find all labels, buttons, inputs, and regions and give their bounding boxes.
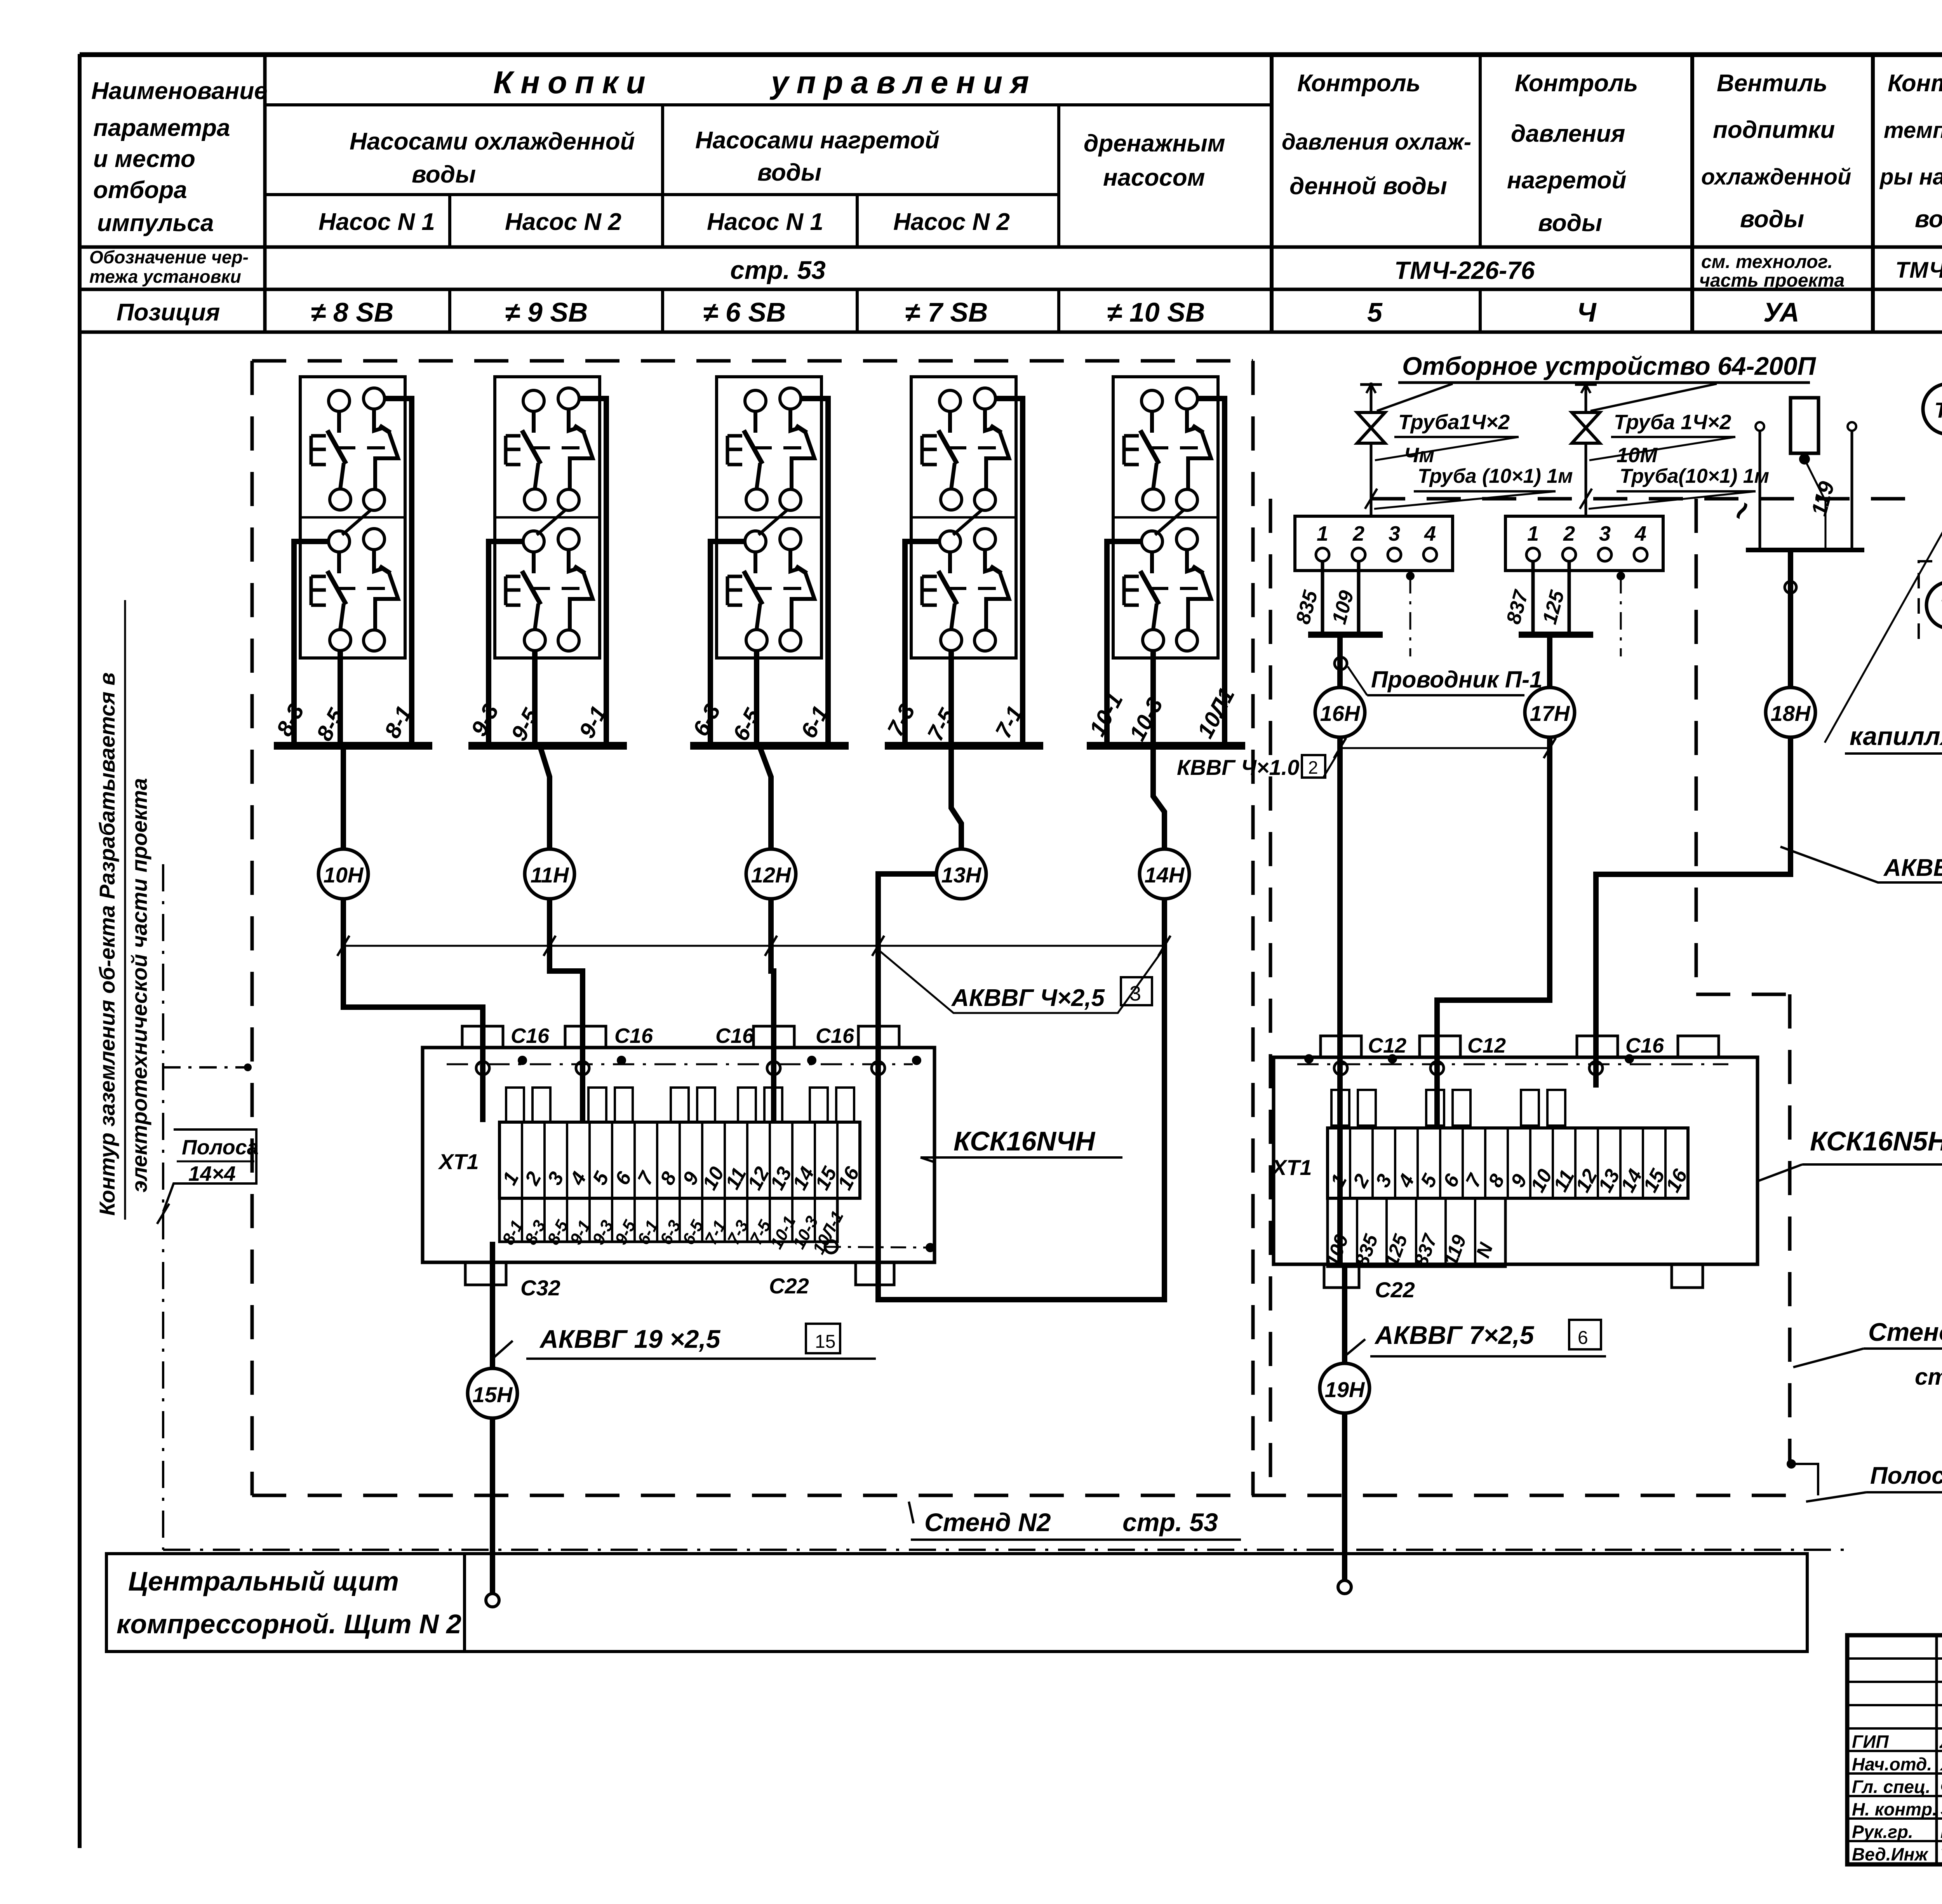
svg-text:17Н: 17Н: [1530, 701, 1570, 726]
wire 12Н down to cabinet: [771, 899, 774, 1122]
wire 17Н to cabinet: [1437, 737, 1550, 1128]
svg-text:и место: и место: [93, 146, 195, 172]
svg-text:4: 4: [1634, 522, 1646, 545]
svg-text:С16: С16: [614, 1024, 653, 1048]
svg-text:11Н: 11Н: [531, 863, 569, 887]
earthing dot: [1625, 1054, 1634, 1063]
svg-text:Труба (10×1) 1м: Труба (10×1) 1м: [1418, 465, 1573, 487]
svg-text:С16: С16: [511, 1024, 550, 1048]
svg-text:Контроль: Контроль: [1888, 70, 1942, 97]
wire right branch: [579, 399, 606, 746]
earthing terminal circle: [872, 1062, 885, 1075]
capillary inside: [1807, 464, 1825, 550]
drawing frame: [78, 54, 82, 1848]
earthing terminal circle: [1334, 1062, 1347, 1075]
earthing dot: [1388, 1054, 1397, 1063]
wire 18Н to cabinet: [1596, 737, 1791, 1088]
svg-text:стр. 53: стр. 53: [730, 256, 826, 284]
wire center branch: [754, 651, 759, 746]
circle 11Н: [525, 849, 574, 899]
svg-text:Насос N 1: Насос N 1: [707, 209, 823, 235]
svg-text:2: 2: [1563, 522, 1575, 545]
svg-text:стр. 53: стр. 53: [1122, 1508, 1218, 1537]
wire left branch: [905, 541, 940, 746]
svg-text:С16: С16: [715, 1024, 754, 1048]
svg-text:18Н: 18Н: [1771, 701, 1811, 726]
svg-text:воды: воды: [1915, 206, 1942, 233]
wire 119 down: [1788, 550, 1793, 687]
earthing dot: [518, 1056, 527, 1065]
earthing dot: [807, 1056, 816, 1065]
svg-text:14Н: 14Н: [1145, 863, 1185, 887]
svg-text:≠ 10 SB: ≠ 10 SB: [1107, 297, 1205, 327]
svg-text:ТI: ТI: [1940, 594, 1942, 618]
cable label АКВВГ 4х2.5 [3] right: [1780, 847, 1942, 882]
svg-text:капилляр: капилляр: [1850, 722, 1942, 750]
circle 19Н: [1320, 1363, 1369, 1413]
wires to bar: [1321, 561, 1324, 635]
svg-text:Вентиль: Вентиль: [1717, 70, 1827, 97]
svg-text:Вед.Инж: Вед.Инж: [1852, 1844, 1928, 1864]
screen dot and drain: [1617, 572, 1625, 580]
svg-text:Фукс: Фукс: [1940, 1777, 1942, 1797]
svg-text:КСК16N5Н: КСК16N5Н: [1810, 1126, 1942, 1156]
table: parameter header table: [80, 52, 1942, 56]
svg-text:Контур заземления об-екта Разр: Контур заземления об-екта Разрабатываетс…: [95, 672, 119, 1216]
svg-text:АКВВГ Ч×2.5: АКВВГ Ч×2.5: [1883, 855, 1942, 881]
svg-text:Наименование: Наименование: [91, 78, 268, 104]
svg-text:2: 2: [1308, 757, 1318, 778]
pushbutton station 6-5 block: [717, 377, 821, 658]
svg-text:АКВВГ 7×2,5: АКВВГ 7×2,5: [1374, 1321, 1535, 1349]
svg-text:параметра: параметра: [93, 115, 230, 141]
svg-text:1: 1: [1527, 522, 1539, 545]
crossover wire: [342, 510, 371, 535]
crossing tick: [872, 936, 884, 956]
gland С16 no.4: [858, 1026, 899, 1048]
svg-text:15: 15: [815, 1331, 835, 1352]
cabinet КСК16N5Н box: [1274, 1057, 1758, 1264]
gland С16 no.1: [462, 1026, 503, 1048]
pushbutton station 8-5 block: [300, 377, 405, 658]
ground contour vertical: [162, 864, 164, 1550]
svg-text:Насос N 1: Насос N 1: [318, 209, 435, 235]
boundary crossing mark: [1365, 489, 1377, 509]
wire center branch: [532, 651, 538, 746]
svg-text:≠ 9 SB: ≠ 9 SB: [505, 297, 588, 327]
wire left branch: [710, 541, 745, 746]
svg-text:Полоса: Полоса: [182, 1136, 259, 1159]
svg-text:насосом: насосом: [1103, 164, 1205, 191]
svg-text:Золотарева: Золотарева: [1940, 1799, 1942, 1819]
svg-text:КСК16NЧН: КСК16NЧН: [954, 1126, 1096, 1156]
terminal bar: [468, 742, 627, 750]
svg-text:Труба 1Ч×2: Труба 1Ч×2: [1614, 411, 1731, 434]
crossing tick: [1158, 936, 1170, 956]
wire АКВВГ 19х2,5 down from С32: [490, 1242, 495, 1368]
svg-text:3: 3: [1599, 522, 1611, 545]
svg-text:Ч: Ч: [1577, 297, 1597, 327]
svg-text:АКВВГ Ч×2,5: АКВВГ Ч×2,5: [951, 985, 1105, 1011]
svg-text:1: 1: [1317, 522, 1328, 545]
wire left branch: [294, 541, 329, 746]
circle 12Н: [746, 849, 796, 899]
svg-text:Насос N 2: Насос N 2: [505, 209, 621, 235]
wire destination row: [499, 1198, 837, 1242]
screen dot and drain: [1406, 572, 1415, 580]
wire from block 8 to 10Н: [341, 746, 346, 849]
wire right branch: [1197, 399, 1225, 746]
svg-text:С22: С22: [1375, 1277, 1415, 1302]
wire right branch: [801, 399, 828, 746]
cabinet earthing bus: [447, 1063, 913, 1065]
svg-text:12Н: 12Н: [751, 863, 792, 887]
svg-text:стр. 54: стр. 54: [1915, 1364, 1942, 1390]
boundary crossing mark: [1580, 489, 1592, 509]
bottom gland right: [1672, 1264, 1703, 1288]
svg-text:давления охлаж-: давления охлаж-: [1282, 129, 1471, 155]
svg-text:Насосами охлажденной: Насосами охлажденной: [350, 128, 635, 155]
svg-text:АКВВГ 19 ×2,5: АКВВГ 19 ×2,5: [539, 1324, 721, 1353]
wire from block 10 to 14Н: [1153, 746, 1164, 849]
wire from block 6 to 12Н: [759, 746, 771, 849]
central panel box: [106, 1554, 1807, 1652]
svg-text:компрессорной. Щит N 2: компрессорной. Щит N 2: [117, 1609, 461, 1639]
svg-text:14×4: 14×4: [188, 1162, 236, 1185]
svg-text:часть проекта: часть проекта: [1699, 270, 1845, 291]
impulse line with valve at x=3530: [1370, 383, 1373, 412]
wire left branch: [489, 541, 523, 746]
gland С22 bottom: [1324, 1264, 1359, 1288]
stand frame left post: [1756, 422, 1764, 431]
earthing terminal circle: [1589, 1062, 1603, 1075]
connection bar: [1519, 632, 1593, 638]
svg-text:охлажденной: охлажденной: [1701, 164, 1851, 190]
svg-text:КВВГ Ч×1.0: КВВГ Ч×1.0: [1177, 755, 1299, 780]
svg-text:Отборное устройство 64-200П: Отборное устройство 64-200П: [1402, 352, 1817, 380]
svg-text:воды: воды: [412, 161, 476, 188]
circle ТI: [1926, 582, 1942, 628]
svg-text:10Н: 10Н: [324, 863, 364, 887]
svg-text:ХТ1: ХТ1: [438, 1149, 479, 1174]
wire end terminal: [1338, 1580, 1351, 1594]
wire from block 9 to 11Н: [540, 746, 550, 849]
wire 10Н down to cabinet: [343, 899, 483, 1122]
svg-text:3: 3: [1129, 982, 1141, 1005]
svg-text:Контроль: Контроль: [1515, 70, 1638, 97]
cable КВВГ 4х1,0 run: [1340, 747, 1550, 749]
shut-off valve: [1572, 412, 1600, 443]
svg-text:Н. контр.: Н. контр.: [1852, 1799, 1937, 1819]
svg-text:ры нагретой: ры нагретой: [1879, 164, 1942, 190]
svg-text:см. технолог.: см. технолог.: [1701, 252, 1833, 272]
ground contour bottom horizontal: [163, 1549, 1846, 1551]
circle 16Н: [1315, 687, 1365, 737]
svg-text:импульса: импульса: [97, 210, 214, 237]
gland С12 no.2: [1420, 1036, 1460, 1057]
strip connection dot: [1787, 1459, 1796, 1469]
svg-text:электротехнической части про: электротехнической части проекта: [127, 778, 151, 1192]
earthing terminal circle: [1430, 1062, 1444, 1075]
svg-text:Позиция: Позиция: [117, 299, 220, 326]
wire 19Н to central panel: [1342, 1413, 1347, 1580]
crossing tick: [543, 936, 555, 956]
conductor П-1 attachment: [1335, 657, 1347, 670]
wire 13Н left and down through cabinet: [878, 874, 1164, 1300]
circle ТЕ: [1923, 384, 1942, 434]
thermowell pocket: [1791, 398, 1818, 453]
svg-text:воды: воды: [1740, 206, 1804, 233]
ground branch to cabinet: [163, 1066, 249, 1069]
sensor terminal box at x=3876: [1505, 516, 1663, 571]
circle 13Н: [936, 849, 986, 899]
svg-text:Кнопки: Кнопки: [493, 65, 653, 100]
wire end terminal: [486, 1594, 499, 1607]
label Полоса 14х4 left: [163, 1130, 256, 1212]
gland С32 bottom: [465, 1262, 506, 1285]
svg-text:воды: воды: [1538, 210, 1602, 237]
cable label АКВВГ 4х2,5 [3]: [878, 948, 1164, 1013]
wire left branch: [1107, 541, 1142, 746]
connection bar: [1308, 632, 1383, 638]
stand frame right post: [1848, 422, 1856, 431]
wire 835/109 down: [1337, 635, 1343, 687]
gland С16 no.3: [753, 1026, 794, 1048]
wire entry lugs: [506, 1088, 524, 1122]
svg-text:Марченко: Марченко: [1940, 1822, 1942, 1842]
svg-text:С16: С16: [816, 1024, 854, 1048]
gland С12 no.1: [1321, 1036, 1361, 1057]
svg-text:денной воды: денной воды: [1289, 173, 1447, 200]
svg-text:ТМЧ-226-76: ТМЧ-226-76: [1394, 256, 1535, 284]
svg-text:Стенд N3: Стенд N3: [1868, 1317, 1942, 1346]
svg-text:4: 4: [1424, 522, 1436, 545]
circle 18Н: [1766, 687, 1815, 737]
stand N3 dashed step: [1696, 993, 1790, 996]
gland С22 bottom: [856, 1262, 894, 1285]
pushbutton station 7-5 block: [911, 377, 1016, 658]
svg-text:Нач.отд.: Нач.отд.: [1852, 1754, 1932, 1774]
svg-text:давления: давления: [1511, 120, 1625, 147]
sensor terminal box at x=3334: [1295, 516, 1453, 571]
wire entry lugs: [1331, 1090, 1349, 1126]
crossover wire: [759, 510, 788, 535]
tube down to terminal box: [1370, 443, 1373, 516]
earthing dot: [912, 1056, 921, 1065]
svg-text:Обозначение чер-: Обозначение чер-: [89, 247, 249, 267]
svg-text:6: 6: [1578, 1328, 1588, 1348]
wire 11Н down to cabinet: [550, 899, 583, 1122]
svg-text:отбора: отбора: [93, 177, 187, 204]
svg-text:ТЕ: ТЕ: [1934, 398, 1942, 422]
crossing tick: [337, 936, 349, 956]
svg-text:Стенд N2: Стенд N2: [924, 1508, 1051, 1537]
terminal bar: [690, 742, 849, 750]
pushbutton station 9-5 block: [495, 377, 600, 658]
svg-text:температу-: температу-: [1884, 118, 1942, 143]
svg-text:2: 2: [1352, 522, 1364, 545]
wire АКВВГ 7х2,5 down from С22: [1342, 1267, 1347, 1363]
crossing tick: [765, 936, 777, 956]
stand N3 dashed inner vertical: [1695, 499, 1698, 994]
crossover wire: [953, 510, 982, 535]
svg-text:подпитки: подпитки: [1713, 117, 1835, 143]
stand N3 dashed boundary top: [1371, 497, 1921, 501]
svg-text:ГИП: ГИП: [1852, 1732, 1889, 1752]
svg-text:С22: С22: [769, 1274, 809, 1298]
circle 17Н: [1525, 687, 1575, 737]
svg-text:С12: С12: [1467, 1034, 1506, 1057]
terminal bar: [885, 742, 1043, 750]
svg-text:≠ 6 SB: ≠ 6 SB: [703, 297, 786, 327]
svg-text:С12: С12: [1368, 1034, 1406, 1057]
svg-text:Гл. спец.: Гл. спец.: [1852, 1777, 1930, 1797]
terminal strip XT1: [1328, 1128, 1688, 1198]
wire right branch: [995, 399, 1023, 746]
svg-text:Третьякова: Третьякова: [1940, 1844, 1942, 1864]
svg-text:Насос N 2: Насос N 2: [893, 209, 1010, 235]
crossing mark: [157, 1204, 169, 1224]
wire from block 7 to 13Н: [951, 746, 961, 849]
wire center branch: [338, 651, 343, 746]
wire 17Н drop: [1547, 635, 1552, 687]
capillary leader: [1825, 525, 1942, 743]
wires to bar: [1531, 561, 1535, 635]
svg-text:дренажным: дренажным: [1084, 130, 1225, 157]
svg-text:С16: С16: [1625, 1034, 1664, 1057]
wire destination row: [1328, 1198, 1505, 1267]
wire 16Н to cabinet: [1337, 737, 1343, 1267]
circle 10Н: [318, 849, 368, 899]
svg-text:Центральный щит: Центральный щит: [128, 1566, 399, 1596]
stand N3 dashed boundary left: [1269, 499, 1272, 1495]
svg-text:воды: воды: [757, 159, 821, 186]
svg-text:Проводник П-1: Проводник П-1: [1371, 667, 1542, 693]
svg-text:≠ 8 SB: ≠ 8 SB: [311, 297, 394, 327]
terminal bar: [274, 742, 432, 750]
svg-text:С32: С32: [520, 1276, 560, 1300]
tube down to terminal box: [1585, 443, 1587, 516]
crossover wire: [1155, 510, 1184, 535]
svg-text:Контроль: Контроль: [1297, 70, 1420, 97]
svg-text:УА: УА: [1763, 297, 1799, 327]
panel area dashed boundary left: [251, 361, 254, 1495]
terminal bar: [1087, 742, 1245, 750]
svg-text:Труба1Ч×2: Труба1Ч×2: [1398, 411, 1510, 434]
stand base: [1746, 548, 1864, 552]
svg-text:тежа установки: тежа установки: [89, 266, 241, 287]
circle 14Н: [1140, 849, 1189, 899]
wire 15Н to central panel: [490, 1418, 495, 1593]
svg-text:13Н: 13Н: [941, 863, 982, 887]
stand area dashed boundary bottom: [252, 1494, 1802, 1497]
earthing terminal circle: [767, 1062, 780, 1075]
cable run line АКВВГ 4х2.5: [343, 945, 1164, 947]
svg-text:5: 5: [1367, 297, 1383, 327]
circle 15Н: [468, 1368, 517, 1418]
svg-text:ТМЧ-172-75: ТМЧ-172-75: [1895, 258, 1942, 283]
terminal strip XT1: [499, 1122, 860, 1198]
svg-text:нагретой: нагретой: [1507, 167, 1626, 194]
earthing terminal circle: [476, 1062, 489, 1075]
shut-off valve: [1357, 412, 1385, 443]
crossover wire: [537, 510, 566, 535]
earthing terminal circle: [576, 1062, 589, 1075]
TI dashed box: [1919, 561, 1942, 639]
svg-text:≠ 7 SB: ≠ 7 SB: [905, 297, 988, 327]
svg-text:15Н: 15Н: [473, 1382, 513, 1407]
panel area dashed boundary top: [252, 359, 1253, 363]
svg-text:Труба(10×1) 1м: Труба(10×1) 1м: [1620, 465, 1769, 487]
gland С16 no.3: [1577, 1036, 1618, 1057]
main title block: [1847, 1635, 1942, 1864]
gland С16 no.2: [565, 1026, 606, 1048]
gland no.4: [1678, 1036, 1719, 1057]
earthing dot: [617, 1056, 626, 1065]
panel area dashed boundary right: [1251, 361, 1255, 1495]
svg-text:Полоса 14 × 4: Полоса 14 × 4: [1870, 1462, 1942, 1489]
svg-text:Рук.гр.: Рук.гр.: [1852, 1822, 1913, 1842]
svg-text:управления: управления: [769, 65, 1037, 100]
bottom earthing link: [825, 1247, 932, 1248]
earthing dot: [1304, 1054, 1314, 1063]
cabinet earthing bus: [1297, 1063, 1728, 1065]
svg-text:Насосами нагретой: Насосами нагретой: [695, 127, 940, 154]
wire center branch: [1150, 651, 1156, 746]
pushbutton station 10-3 block: [1113, 377, 1218, 658]
label Стенд N2 стр.53: [909, 1502, 914, 1523]
svg-text:19Н: 19Н: [1325, 1377, 1365, 1402]
svg-text:ХТ1: ХТ1: [1271, 1155, 1312, 1180]
svg-text:3: 3: [1389, 522, 1400, 545]
impulse line with valve at x=4083: [1585, 383, 1587, 412]
cabinet КСК16NЧН box: [423, 1048, 934, 1262]
svg-text:16Н: 16Н: [1320, 701, 1361, 726]
wire center branch: [948, 651, 954, 746]
wire right branch: [385, 399, 412, 746]
